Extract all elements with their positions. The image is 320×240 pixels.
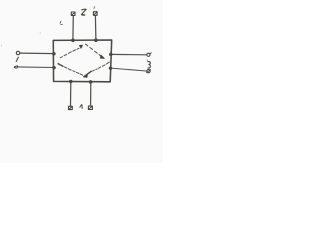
bridge diamond edge D-TL (dashed, left vertex to top apex)	[60, 48, 79, 58]
bridge diamond edge D-BR (dashed, right vertex to bottom apex)	[93, 62, 110, 71]
port label 4 (bottom, handwritten)	[80, 105, 82, 109]
wire right-lower (box right to terminal 3b)	[111, 68, 147, 71]
terminal square 2b (top right)	[93, 12, 97, 16]
port label 1 (left, apostrophe-like mark)	[16, 57, 18, 61]
terminal square 4a (bottom left)	[69, 106, 73, 109]
faint speck left edge	[1, 45, 2, 46]
node dot bottom-left on box edge	[69, 80, 73, 84]
terminal square 2a (top left)	[71, 12, 75, 16]
wire right-upper (box right to terminal 3a)	[111, 53, 147, 55]
port label 2 (top, handwritten)	[82, 9, 87, 15]
arrowhead A-TR (points down-right toward right vertex)	[100, 55, 104, 58]
box network N1 (two-port lattice box)	[53, 40, 111, 82]
terminal circle 3a with tick (right upper)	[147, 53, 151, 57]
wire bottom-right (box bottom down to terminal 4b)	[90, 82, 92, 106]
terminal circle 1a (left upper)	[16, 51, 19, 54]
terminal circle 3b slashed (right lower)	[147, 69, 151, 72]
stray tick mark above box top-left	[60, 21, 62, 24]
port label 3 (right, handwritten)	[148, 62, 151, 68]
bridge diamond edge D-TR (dashed, top apex to right vertex)	[86, 44, 101, 56]
node dot left-lower on box edge	[52, 66, 56, 70]
node dot right-lower on box edge	[109, 66, 113, 70]
tick mark above terminal 2b	[93, 7, 95, 9]
wire bottom-left (box bottom down to terminal 4a)	[70, 82, 72, 107]
wire left-lower (terminal 1b to box left)	[17, 66, 54, 69]
node dot top-right on box edge	[94, 38, 98, 42]
node dot right-upper on box edge	[109, 53, 113, 57]
wire left-upper (terminal 1a to box left)	[20, 52, 54, 55]
speck above label 3	[147, 60, 148, 61]
wire top-right (terminal 2b down to box top)	[94, 16, 97, 40]
node dot bottom-right on box edge	[89, 80, 93, 84]
wire top-left (terminal 2a down to box top)	[72, 16, 74, 41]
arrowhead A-BR (points down-left toward bottom apex)	[84, 71, 92, 77]
node dot top-left on box edge	[71, 39, 75, 43]
arrowhead A-TL (points up-right toward top apex)	[80, 45, 83, 48]
terminal hook 1b (left lower)	[14, 66, 17, 68]
bridge diamond edge D-BL (dashed, left vertex to bottom apex)	[58, 64, 83, 75]
terminal square 4b (bottom right)	[88, 106, 92, 109]
faint speck above box	[40, 32, 41, 33]
node dot left-upper on box edge	[52, 52, 56, 56]
